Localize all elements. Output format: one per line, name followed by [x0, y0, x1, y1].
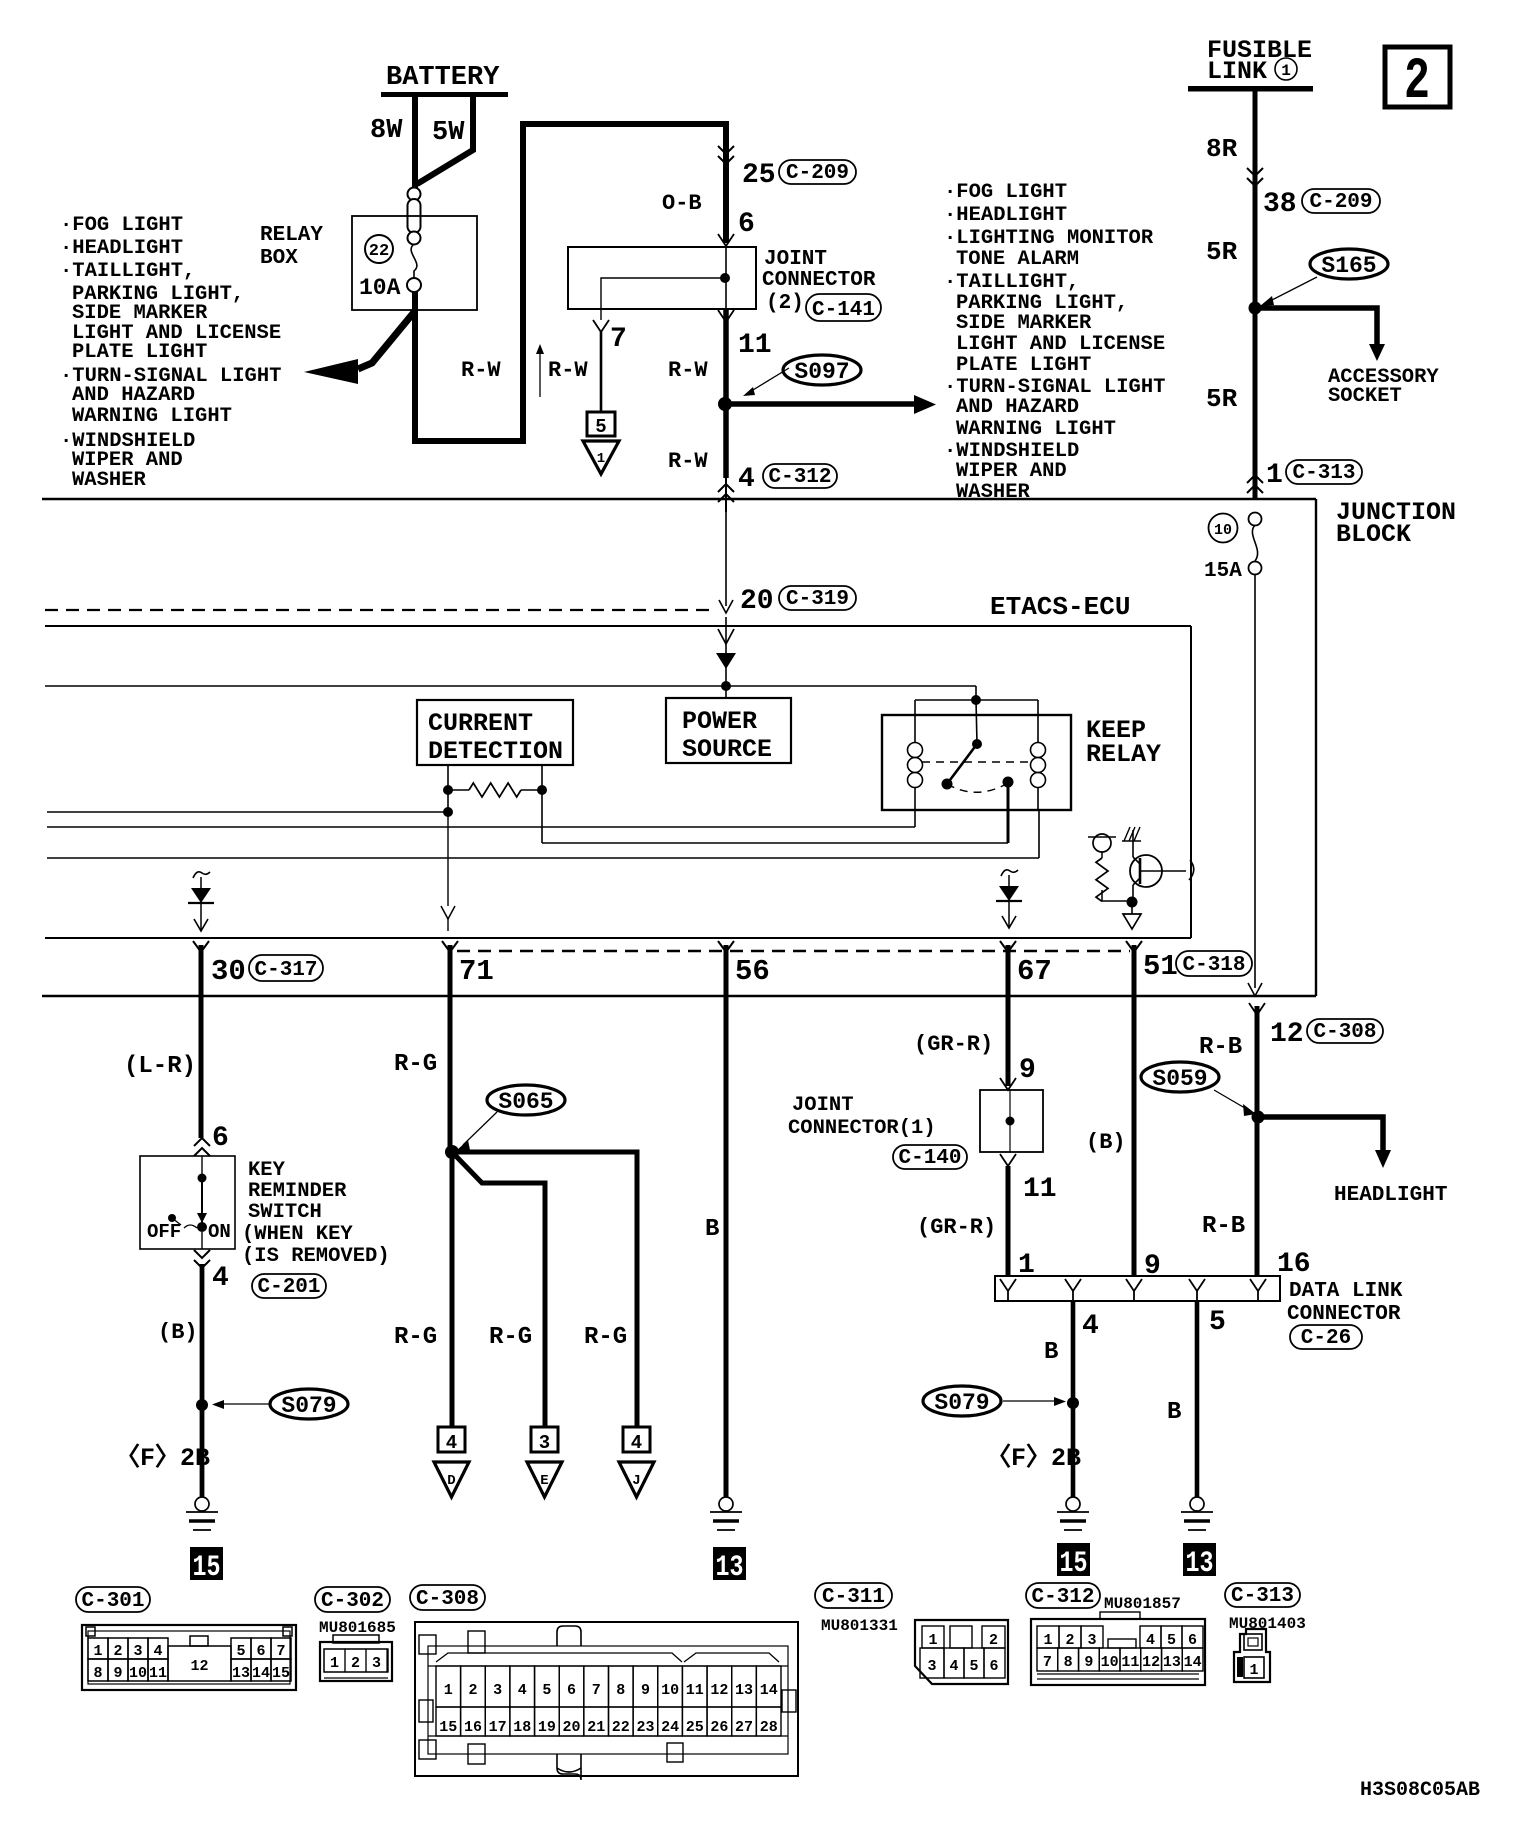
- wire F 2B label: [115, 1443, 210, 1473]
- svg-text:RELAY: RELAY: [1086, 740, 1161, 769]
- svg-text:WARNING LIGHT: WARNING LIGHT: [956, 418, 1116, 441]
- svg-text:WIPER AND: WIPER AND: [956, 460, 1067, 483]
- svg-text:(2): (2): [766, 292, 804, 315]
- fuse 10A label: [359, 275, 401, 301]
- svg-text:C-313: C-313: [1231, 1585, 1294, 1608]
- svg-text:30: 30: [211, 955, 246, 988]
- wire from fuse to C-308: [1248, 574, 1262, 996]
- svg-text:8: 8: [1064, 1654, 1073, 1671]
- data link connector label: [1287, 1280, 1403, 1350]
- svg-text:(WHEN KEY: (WHEN KEY: [242, 1223, 353, 1246]
- svg-text:2: 2: [1065, 1632, 1074, 1649]
- svg-text:H3S08C05AB: H3S08C05AB: [1360, 1779, 1480, 1802]
- svg-text:S165: S165: [1321, 253, 1376, 279]
- wire R-G branch E: [452, 1152, 545, 1427]
- svg-text:1: 1: [1266, 460, 1283, 491]
- battery BATTERY: [381, 63, 508, 97]
- svg-text:25: 25: [686, 1719, 704, 1736]
- svg-text:C-308: C-308: [416, 1588, 479, 1611]
- svg-text:1: 1: [1249, 1662, 1258, 1679]
- svg-text:RELAY: RELAY: [260, 224, 323, 247]
- connector C-302: [320, 1635, 392, 1681]
- wire B from pin 56 to ground: [705, 945, 726, 1497]
- svg-text:5: 5: [236, 1643, 245, 1660]
- wire F 2B right label: [986, 1443, 1081, 1473]
- fuse 15A circuit 10: [1204, 513, 1262, 584]
- ground number 15: [190, 1547, 223, 1585]
- svg-text:B: B: [705, 1216, 719, 1243]
- svg-text:6: 6: [989, 1658, 998, 1675]
- svg-text:12: 12: [190, 1658, 208, 1675]
- svg-text:PLATE LIGHT: PLATE LIGHT: [956, 354, 1091, 377]
- svg-text:25: 25: [742, 160, 776, 191]
- svg-text:5: 5: [595, 416, 606, 438]
- ground box 4 D: [438, 1427, 465, 1454]
- svg-text:(B): (B): [158, 1320, 198, 1345]
- svg-text:REMINDER: REMINDER: [248, 1180, 347, 1203]
- ground data link 5: [1181, 1497, 1213, 1530]
- arrow to headlight: [1258, 1117, 1447, 1207]
- svg-text:1: 1: [444, 1682, 453, 1699]
- left load list: [60, 214, 281, 492]
- svg-text:C-209: C-209: [1309, 191, 1372, 214]
- svg-text:5: 5: [1209, 1307, 1226, 1338]
- svg-text:R-G: R-G: [489, 1324, 532, 1351]
- label 25 C-209: [742, 160, 856, 191]
- junction block label: [1336, 498, 1456, 549]
- svg-text:CONNECTOR: CONNECTOR: [1287, 1303, 1401, 1326]
- svg-text:1: 1: [597, 451, 605, 467]
- svg-text:13: 13: [1163, 1654, 1181, 1671]
- svg-text:4: 4: [738, 464, 755, 495]
- svg-text:C-312: C-312: [768, 466, 831, 489]
- key reminder switch: [140, 1156, 235, 1249]
- svg-text:4: 4: [949, 1658, 958, 1675]
- svg-text:ETACS-ECU: ETACS-ECU: [990, 592, 1130, 622]
- svg-text:R-W: R-W: [668, 358, 708, 383]
- splice S079 right: [923, 1386, 1079, 1416]
- wire B to splice S079: [158, 1264, 202, 1497]
- joint connector 2 label: [762, 248, 881, 322]
- pin 6 key reminder: [194, 1123, 229, 1156]
- svg-text:DATA LINK: DATA LINK: [1289, 1280, 1403, 1303]
- current detection output arrow: [441, 812, 455, 931]
- ground centre: [710, 1497, 742, 1530]
- svg-text:C-311: C-311: [822, 1586, 885, 1609]
- svg-text:5W: 5W: [432, 118, 465, 148]
- svg-text:LINK: LINK: [1207, 57, 1267, 86]
- svg-text:9: 9: [1144, 1251, 1161, 1282]
- svg-text:10A: 10A: [359, 275, 401, 301]
- svg-text:S079: S079: [934, 1390, 989, 1416]
- wire B pin 51 to data link: [1086, 945, 1161, 1282]
- svg-text:C-141: C-141: [812, 299, 875, 322]
- svg-text:C-318: C-318: [1182, 954, 1245, 977]
- svg-text:4: 4: [518, 1682, 527, 1699]
- svg-text:JOINT: JOINT: [764, 248, 827, 271]
- svg-text:18: 18: [513, 1719, 531, 1736]
- ground triangle J: [619, 1462, 654, 1497]
- svg-text:OFF: OFF: [147, 1221, 181, 1243]
- svg-text:S097: S097: [794, 359, 849, 385]
- svg-text:16: 16: [464, 1719, 482, 1736]
- svg-text:17: 17: [489, 1719, 507, 1736]
- label 38 C-209: [1263, 189, 1380, 220]
- svg-text:22: 22: [612, 1719, 630, 1736]
- svg-text:MU801403: MU801403: [1229, 1615, 1306, 1633]
- svg-text:B: B: [1167, 1399, 1181, 1426]
- svg-text:3: 3: [493, 1682, 502, 1699]
- svg-text:WASHER: WASHER: [956, 481, 1031, 504]
- svg-text:4: 4: [1146, 1632, 1155, 1649]
- svg-text:5: 5: [1167, 1632, 1176, 1649]
- svg-text:·LIGHTING MONITOR: ·LIGHTING MONITOR: [944, 227, 1154, 250]
- svg-text:27: 27: [735, 1719, 753, 1736]
- svg-text:21: 21: [587, 1719, 605, 1736]
- connector C-311: [915, 1620, 1008, 1684]
- svg-text:POWER: POWER: [682, 707, 757, 736]
- ground left: [186, 1497, 218, 1530]
- svg-text:13: 13: [1186, 1547, 1214, 1581]
- power source block: [666, 698, 791, 764]
- ground triangle D: [434, 1462, 469, 1497]
- key reminder switch label: [242, 1159, 390, 1299]
- svg-text:11: 11: [686, 1682, 704, 1699]
- svg-text:C-317: C-317: [254, 959, 317, 982]
- svg-text:(L-R): (L-R): [124, 1053, 196, 1080]
- svg-text:B: B: [1044, 1339, 1058, 1366]
- svg-text:R-W: R-W: [461, 358, 501, 383]
- svg-text:7: 7: [1043, 1654, 1052, 1671]
- drawing number: [1360, 1779, 1480, 1802]
- svg-text:4: 4: [212, 1263, 229, 1294]
- wire R-B lower label: [1202, 1213, 1311, 1280]
- connector C-311 label: [815, 1583, 898, 1635]
- svg-text:4: 4: [631, 1432, 642, 1454]
- svg-text:R-G: R-G: [394, 1324, 437, 1351]
- svg-text:11: 11: [1023, 1174, 1057, 1205]
- svg-text:10: 10: [661, 1682, 679, 1699]
- svg-text:2: 2: [989, 1632, 998, 1649]
- svg-text:4: 4: [446, 1432, 457, 1454]
- svg-text:C-302: C-302: [321, 1590, 384, 1613]
- svg-text:S065: S065: [498, 1089, 553, 1115]
- svg-text:8W: 8W: [370, 116, 403, 146]
- svg-text:R-G: R-G: [394, 1051, 437, 1078]
- svg-text:C-26: C-26: [1301, 1327, 1351, 1350]
- svg-text:10: 10: [1101, 1654, 1119, 1671]
- wire from relay box to junction: [415, 124, 726, 441]
- svg-text:1: 1: [330, 1655, 339, 1672]
- keep relay coil right: [1031, 743, 1046, 811]
- svg-text:8: 8: [93, 1665, 102, 1682]
- pin 6 joint connector 2: [718, 209, 755, 246]
- svg-text:10: 10: [1214, 522, 1232, 539]
- svg-text:5R: 5R: [1206, 384, 1238, 414]
- wire 8R: [1206, 91, 1263, 499]
- pin 67: [1000, 941, 1052, 988]
- wire 5R lower label: [1206, 384, 1238, 414]
- svg-text:·HEADLIGHT: ·HEADLIGHT: [944, 204, 1067, 227]
- svg-text:BATTERY: BATTERY: [386, 63, 500, 93]
- wire R-W down from joint connector 2: [718, 309, 772, 404]
- svg-text:C-140: C-140: [898, 1147, 961, 1170]
- keep relay coil left: [908, 743, 923, 811]
- svg-text:1: 1: [1043, 1632, 1052, 1649]
- svg-text:14: 14: [252, 1665, 270, 1682]
- svg-text:10: 10: [129, 1665, 147, 1682]
- svg-text:23: 23: [636, 1719, 654, 1736]
- right load list: [944, 181, 1165, 504]
- splice S165: [1249, 249, 1389, 315]
- ground box 5: [587, 412, 615, 438]
- svg-text:J: J: [632, 1473, 640, 1489]
- fusible link 1: [1188, 36, 1313, 92]
- pin 4 key reminder: [194, 1250, 229, 1294]
- svg-text:11: 11: [738, 330, 772, 361]
- svg-text:·HEADLIGHT: ·HEADLIGHT: [60, 237, 183, 260]
- transistor emitter ground: [1123, 897, 1141, 930]
- wire L-R: [124, 945, 201, 1138]
- svg-text:BOX: BOX: [260, 247, 298, 270]
- svg-text:SIDE MARKER: SIDE MARKER: [956, 312, 1092, 335]
- svg-text:9: 9: [1084, 1654, 1093, 1671]
- splice S059: [1141, 1062, 1265, 1124]
- connector C-312: [1031, 1612, 1205, 1685]
- svg-text:6: 6: [1188, 1632, 1197, 1649]
- ground triangle E: [527, 1462, 562, 1497]
- svg-text:TONE ALARM: TONE ALARM: [956, 248, 1079, 271]
- connector C-313 label: [1225, 1583, 1306, 1633]
- svg-text:19: 19: [538, 1719, 556, 1736]
- svg-text:3: 3: [372, 1655, 381, 1672]
- ground number 13: [713, 1547, 746, 1585]
- joint connector 1 box: [980, 1090, 1043, 1152]
- svg-text:2: 2: [468, 1682, 477, 1699]
- svg-text:BLOCK: BLOCK: [1336, 520, 1411, 549]
- svg-text:JOINT: JOINT: [792, 1094, 854, 1117]
- wire R-G branch D: [394, 1152, 452, 1427]
- svg-text:12: 12: [1270, 1019, 1304, 1050]
- label 20 C-319 dashed connector line: [45, 586, 856, 617]
- svg-text:1: 1: [93, 1643, 102, 1660]
- svg-text:14: 14: [1184, 1654, 1202, 1671]
- svg-text:15: 15: [1060, 1547, 1088, 1581]
- svg-text:C-301: C-301: [81, 1590, 144, 1613]
- svg-text:CONNECTOR: CONNECTOR: [762, 269, 876, 292]
- current sense resistor: [443, 765, 547, 797]
- wire B pin 5: [1167, 1301, 1226, 1497]
- relay box: [260, 216, 477, 310]
- pin 30 C-317: [193, 941, 323, 988]
- connector C-312 label: [1026, 1583, 1181, 1613]
- svg-text:6: 6: [567, 1682, 576, 1699]
- wire R-G from pin 71: [394, 945, 450, 1152]
- svg-text:R-G: R-G: [584, 1324, 627, 1351]
- svg-text:14: 14: [760, 1682, 778, 1699]
- ground triangle 1: [583, 441, 619, 474]
- ground box 3 E: [531, 1427, 558, 1454]
- R-W labels: [461, 358, 708, 474]
- svg-text:22: 22: [369, 242, 389, 261]
- svg-text:LIGHT AND LICENSE: LIGHT AND LICENSE: [956, 333, 1165, 356]
- svg-text:〈F〉2B: 〈F〉2B: [986, 1443, 1081, 1473]
- wire 8W from battery: [370, 97, 415, 189]
- svg-text:12: 12: [710, 1682, 728, 1699]
- wire R-B from junction block: [1199, 1003, 1383, 1276]
- data link connector strip: [995, 1276, 1280, 1301]
- svg-text:R-W: R-W: [668, 449, 708, 474]
- svg-text:9: 9: [113, 1665, 122, 1682]
- svg-text:12: 12: [1142, 1654, 1160, 1671]
- svg-text:4: 4: [1082, 1311, 1099, 1342]
- svg-text:51: 51: [1143, 950, 1178, 983]
- splice S079 left: [196, 1389, 348, 1419]
- svg-text:〈F〉2B: 〈F〉2B: [115, 1443, 210, 1473]
- svg-text:26: 26: [710, 1719, 728, 1736]
- svg-text:1: 1: [1281, 62, 1291, 80]
- connector C-308: [415, 1622, 798, 1780]
- keep relay feed node: [915, 686, 1038, 743]
- svg-text:E: E: [540, 1473, 548, 1489]
- svg-text:3: 3: [927, 1658, 936, 1675]
- splice S097: [718, 355, 861, 411]
- arrow to accessory socket: [1255, 308, 1439, 408]
- ground data link 4: [1057, 1497, 1089, 1530]
- wire O-B chevrons: [718, 146, 734, 164]
- arrow to light circuits: [304, 311, 415, 384]
- svg-text:38: 38: [1263, 189, 1297, 220]
- pin 51 C-318: [1126, 941, 1252, 983]
- svg-text:C-312: C-312: [1031, 1586, 1094, 1609]
- svg-text:SOURCE: SOURCE: [682, 735, 772, 764]
- svg-text:20: 20: [562, 1719, 580, 1736]
- svg-text:15: 15: [193, 1551, 221, 1585]
- svg-text:3: 3: [539, 1432, 550, 1454]
- svg-text:AND HAZARD: AND HAZARD: [956, 396, 1079, 419]
- svg-text:8: 8: [616, 1682, 625, 1699]
- svg-text:16: 16: [1277, 1249, 1311, 1280]
- svg-text:·TAILLIGHT,: ·TAILLIGHT,: [60, 260, 195, 283]
- ground number 13 right: [1183, 1543, 1216, 1581]
- rail to keep relay top: [45, 685, 976, 687]
- svg-text:3: 3: [1087, 1632, 1096, 1649]
- svg-text:6: 6: [256, 1643, 265, 1660]
- svg-text:13: 13: [232, 1665, 250, 1682]
- svg-text:5R: 5R: [1206, 237, 1238, 267]
- diode output 67: [996, 870, 1022, 928]
- connector C-302 label: [315, 1587, 396, 1637]
- svg-text:11: 11: [1121, 1654, 1139, 1671]
- connector C-313: [1234, 1629, 1270, 1682]
- svg-text:15: 15: [439, 1719, 457, 1736]
- wire into ETACS: [719, 512, 733, 613]
- svg-text:S079: S079: [281, 1393, 336, 1419]
- svg-text:6: 6: [212, 1123, 229, 1154]
- svg-text:71: 71: [459, 955, 494, 988]
- svg-text:PLATE LIGHT: PLATE LIGHT: [72, 341, 207, 364]
- svg-text:WASHER: WASHER: [72, 469, 147, 492]
- svg-text:7: 7: [276, 1643, 285, 1660]
- pin 56: [718, 941, 770, 988]
- svg-text:(GR-R): (GR-R): [914, 1032, 993, 1057]
- svg-text:KEY: KEY: [248, 1159, 286, 1182]
- wire label O-B: [662, 191, 702, 216]
- svg-text:3: 3: [133, 1643, 142, 1660]
- svg-text:S059: S059: [1152, 1066, 1207, 1092]
- svg-text:9: 9: [641, 1682, 650, 1699]
- svg-text:7: 7: [610, 324, 627, 355]
- svg-text:·FOG LIGHT: ·FOG LIGHT: [944, 181, 1067, 204]
- svg-text:C-308: C-308: [1313, 1021, 1376, 1044]
- pin 1 C-313 junction block: [1247, 460, 1362, 493]
- wire GR-R lower: [917, 1154, 1057, 1281]
- keep relay switch: [922, 700, 1030, 843]
- svg-text:11: 11: [149, 1665, 167, 1682]
- svg-text:4: 4: [153, 1643, 162, 1660]
- svg-text:C-313: C-313: [1292, 462, 1355, 485]
- svg-text:WARNING LIGHT: WARNING LIGHT: [72, 405, 232, 428]
- svg-text:R-B: R-B: [1202, 1213, 1245, 1240]
- pin 71: [442, 941, 494, 988]
- svg-text:13: 13: [716, 1551, 744, 1585]
- keep relay box: [882, 715, 1161, 810]
- svg-text:MU801331: MU801331: [821, 1617, 898, 1635]
- svg-text:56: 56: [735, 955, 770, 988]
- joint connector 2 box: [568, 247, 756, 320]
- svg-text:20: 20: [740, 586, 774, 617]
- svg-text:D: D: [447, 1473, 455, 1489]
- svg-text:CONNECTOR(1): CONNECTOR(1): [788, 1117, 936, 1140]
- svg-text:SOCKET: SOCKET: [1328, 385, 1402, 408]
- transistor driver circuit: [1088, 834, 1127, 901]
- wire 5W from battery: [417, 97, 473, 184]
- svg-text:C-209: C-209: [786, 162, 849, 185]
- svg-text:R-B: R-B: [1199, 1034, 1242, 1061]
- svg-text:5: 5: [969, 1658, 978, 1675]
- wire R-W to junction block: [718, 404, 837, 512]
- diode output 30: [188, 872, 214, 931]
- svg-text:8R: 8R: [1206, 134, 1238, 164]
- svg-text:9: 9: [1019, 1055, 1036, 1086]
- svg-text:2: 2: [351, 1655, 360, 1672]
- direction arrow up: [536, 344, 544, 397]
- ETACS-ECU box: [45, 592, 1191, 938]
- pin 7 wire to ground 1: [593, 320, 627, 412]
- ground number 15 right: [1057, 1543, 1090, 1581]
- svg-text:C-201: C-201: [257, 1276, 320, 1299]
- svg-text:CURRENT: CURRENT: [428, 709, 533, 738]
- wire B pin 4: [1044, 1301, 1099, 1497]
- arrow S097 to right loads: [725, 395, 936, 414]
- svg-text:O-B: O-B: [662, 191, 702, 216]
- transistor Q: [1122, 827, 1194, 901]
- rail to current detection: [47, 790, 453, 817]
- svg-text:R-W: R-W: [548, 358, 588, 383]
- svg-text:15: 15: [272, 1665, 290, 1682]
- splice S065: [445, 1085, 565, 1159]
- svg-text:6: 6: [738, 209, 755, 240]
- svg-text:DETECTION: DETECTION: [428, 737, 563, 766]
- svg-text:7: 7: [592, 1682, 601, 1699]
- svg-text:2: 2: [1404, 50, 1430, 115]
- rail to keep relay coil right: [47, 810, 1039, 858]
- svg-text:1: 1: [928, 1632, 937, 1649]
- svg-text:15A: 15A: [1204, 560, 1242, 583]
- connector C-301 label: [76, 1587, 150, 1613]
- diode into power source: [716, 617, 736, 698]
- svg-text:ON: ON: [208, 1221, 231, 1243]
